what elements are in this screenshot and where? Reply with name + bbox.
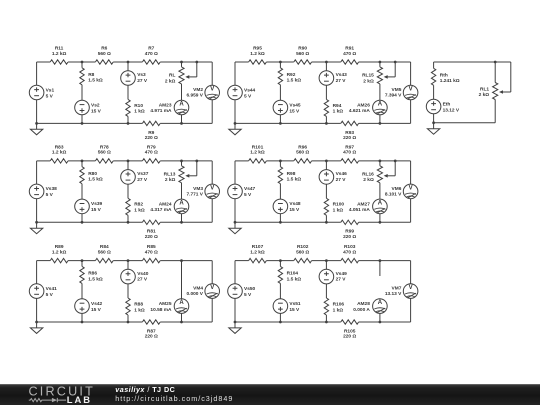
wire: branch 3 upper	[379, 62, 381, 67]
svg-text:RL: RL	[169, 73, 175, 79]
svg-text:Vs49: Vs49	[336, 271, 348, 277]
svg-text:220 Ω: 220 Ω	[343, 234, 356, 240]
voltage source Vs51 15 V	[273, 299, 288, 314]
svg-text:Vs51: Vs51	[289, 301, 301, 307]
resistor R97	[341, 159, 359, 163]
resistor R94	[324, 99, 328, 116]
voltage source Vs39 15 V	[75, 199, 90, 214]
node: bottom junction 2	[127, 221, 130, 224]
wire: wiper	[394, 62, 396, 77]
svg-text:Vs43: Vs43	[336, 72, 348, 78]
svg-text:Vs46: Vs46	[336, 171, 348, 177]
node: top junction 1	[279, 61, 282, 64]
resistor R103	[341, 258, 359, 262]
wire: left rail middle	[433, 85, 435, 99]
svg-text:R96: R96	[298, 145, 307, 151]
svg-text:R6: R6	[101, 46, 107, 52]
wire: right rail	[410, 161, 412, 184]
svg-text:1.5 kΩ: 1.5 kΩ	[88, 276, 103, 282]
svg-text:1.2 kΩ: 1.2 kΩ	[52, 51, 67, 57]
resistor R78	[95, 159, 113, 163]
svg-text:LAB: LAB	[67, 394, 92, 405]
svg-text:R99: R99	[345, 229, 354, 235]
ground	[36, 322, 38, 328]
svg-text:1.5 kΩ: 1.5 kΩ	[287, 276, 302, 282]
resistor R92	[278, 68, 282, 85]
wire: left rail upper	[433, 62, 435, 68]
ammeter AM24 4.317 mA	[174, 199, 189, 214]
svg-text:AM24: AM24	[159, 202, 172, 208]
svg-text:1 kΩ: 1 kΩ	[134, 307, 145, 313]
svg-text:470 Ω: 470 Ω	[145, 150, 158, 156]
svg-text:1.5 kΩ: 1.5 kΩ	[287, 78, 302, 84]
voltage source Vs2 15 V	[75, 100, 90, 115]
svg-text:Vs42: Vs42	[91, 301, 103, 307]
CircuitLab logo: resistor zigzag	[29, 399, 52, 402]
wire: branch 3 lower	[181, 115, 183, 124]
svg-text:2 kΩ: 2 kΩ	[165, 177, 176, 183]
voltage source Vs1 5 V	[29, 85, 44, 100]
resistor R80	[80, 167, 84, 184]
svg-text:Vs39: Vs39	[91, 201, 103, 207]
svg-text:220 Ω: 220 Ω	[145, 334, 158, 340]
ground	[234, 222, 236, 228]
svg-text:2 kΩ: 2 kΩ	[165, 78, 176, 84]
wire: branch 3 lower	[181, 214, 183, 223]
svg-text:A: A	[378, 300, 383, 306]
resistor R105	[341, 320, 359, 324]
svg-text:R103: R103	[344, 244, 356, 250]
svg-text:5 V: 5 V	[46, 292, 54, 298]
svg-text:15 V: 15 V	[91, 108, 102, 114]
voltage source Vs50 5 V	[228, 284, 243, 299]
resistor R85	[142, 258, 160, 262]
svg-text:R7: R7	[148, 46, 154, 52]
svg-text:27 V: 27 V	[137, 277, 148, 283]
wire: branch 1	[279, 62, 281, 68]
resistor R100	[324, 198, 328, 215]
voltage source Vs43 27 V	[319, 71, 334, 86]
svg-text:R92: R92	[287, 72, 296, 78]
voltage source Vs42 15 V	[75, 299, 90, 314]
svg-text:13.12 V: 13.12 V	[443, 107, 460, 113]
voltage source Vs46 27 V	[319, 170, 334, 185]
svg-text:R78: R78	[100, 145, 109, 151]
node: top junction 1	[81, 160, 84, 163]
wire: branch 3 upper	[181, 62, 183, 67]
wire: left rail	[234, 261, 236, 285]
svg-text:A: A	[179, 102, 184, 108]
svg-text:R80: R80	[88, 171, 97, 177]
node: bottom junction 3	[180, 221, 183, 224]
svg-text:VM5: VM5	[392, 87, 402, 93]
svg-text:R100: R100	[333, 202, 345, 208]
svg-text:http://circuitlab.com/c3jd849: http://circuitlab.com/c3jd849	[115, 394, 233, 403]
svg-text:R89: R89	[55, 244, 64, 250]
svg-text:560 Ω: 560 Ω	[296, 249, 309, 255]
voltage source Vs44 5 V	[228, 85, 243, 100]
svg-text:Vs44: Vs44	[244, 87, 256, 93]
wire: branch 2	[325, 161, 327, 170]
node: top junction 1	[81, 259, 84, 262]
svg-text:R95: R95	[253, 46, 262, 52]
svg-text:470 Ω: 470 Ω	[343, 249, 356, 255]
resistor R106	[324, 298, 328, 315]
svg-text:2 kΩ: 2 kΩ	[363, 177, 374, 183]
wire: top rail of circuit (Vs1 group)	[37, 61, 51, 63]
ammeter AM26 4.621 mA	[373, 100, 388, 115]
ground	[36, 222, 38, 228]
resistor R6	[95, 60, 113, 64]
svg-text:AM23: AM23	[159, 103, 172, 109]
svg-text:R82: R82	[134, 202, 143, 208]
svg-text:15 V: 15 V	[289, 207, 300, 213]
wire: branch 1	[279, 161, 281, 167]
wire: branch 3 upper	[379, 161, 381, 166]
resistor R102	[294, 258, 312, 262]
wire: top rail of circuit (Vs38 group)	[37, 160, 51, 162]
svg-text:560 Ω: 560 Ω	[98, 249, 111, 255]
node: bottom junction 2	[127, 321, 130, 324]
svg-text:V: V	[210, 87, 214, 93]
svg-text:Vs41: Vs41	[46, 286, 58, 292]
svg-text:0.000 V: 0.000 V	[186, 291, 203, 297]
svg-text:Rth: Rth	[440, 72, 448, 78]
svg-text:R86: R86	[88, 271, 97, 277]
node: bottom junction 3	[180, 122, 183, 125]
voltage source Vs37 27 V	[121, 170, 136, 185]
voltmeter VM4 0.000 V	[205, 284, 220, 299]
svg-text:R94: R94	[333, 103, 342, 109]
svg-text:RL1: RL1	[480, 86, 489, 92]
node: top junction 3	[180, 61, 183, 64]
node: bottom junction 1	[81, 321, 84, 324]
svg-text:vasiliyx / TJ DC: vasiliyx / TJ DC	[115, 385, 175, 394]
node: bottom junction 3	[379, 221, 382, 224]
ground	[433, 123, 435, 129]
svg-text:R107: R107	[252, 244, 264, 250]
svg-text:1 kΩ: 1 kΩ	[134, 208, 145, 214]
potentiometer RL15	[377, 67, 382, 84]
resistor R96	[294, 159, 312, 163]
svg-text:8.101 V: 8.101 V	[385, 192, 402, 198]
svg-text:R88: R88	[134, 301, 143, 307]
wire: left rail	[234, 161, 236, 185]
svg-text:R84: R84	[100, 244, 109, 250]
node: ground junction	[234, 122, 237, 125]
wire: right rail	[211, 62, 213, 85]
wire: branch 3 (short link)	[181, 261, 183, 299]
node: ground junction	[234, 321, 237, 324]
node: wiper junction	[394, 160, 397, 163]
svg-text:5 V: 5 V	[46, 93, 54, 99]
voltmeter VM7 13.13 V	[403, 284, 418, 299]
node: bottom junction 1	[279, 122, 282, 125]
svg-text:R90: R90	[298, 46, 307, 52]
node: top junction 3	[379, 259, 382, 262]
voltage source Vs3 27 V	[121, 71, 136, 86]
voltage source Vs38 5 V	[29, 184, 44, 199]
resistor R11	[50, 60, 68, 64]
node: top junction 3	[180, 259, 183, 262]
svg-text:VM4: VM4	[193, 286, 203, 292]
svg-text:470 Ω: 470 Ω	[343, 51, 356, 57]
svg-text:1 kΩ: 1 kΩ	[333, 208, 344, 214]
wire: branch 3 upper	[181, 161, 183, 166]
resistor R9	[142, 121, 160, 125]
svg-text:7.771 V: 7.771 V	[186, 192, 203, 198]
resistor R98	[278, 167, 282, 184]
svg-text:RL13: RL13	[164, 172, 176, 178]
svg-text:V: V	[210, 285, 214, 291]
node: bottom junction 1	[279, 321, 282, 324]
svg-text:VM6: VM6	[392, 186, 402, 192]
voltage source Vs47 5 V	[228, 184, 243, 199]
wire: branch 3 lower	[379, 115, 381, 124]
resistor Rth	[431, 68, 435, 85]
svg-text:V: V	[409, 285, 413, 291]
svg-text:1.2 kΩ: 1.2 kΩ	[250, 51, 265, 57]
svg-text:Vs1: Vs1	[46, 87, 55, 93]
svg-text:V: V	[409, 186, 413, 192]
svg-text:5 V: 5 V	[244, 292, 252, 298]
svg-text:27 V: 27 V	[336, 277, 347, 283]
svg-text:AM26: AM26	[357, 103, 370, 109]
node: top junction 1	[279, 259, 282, 262]
wire: left rail	[234, 62, 236, 86]
svg-text:5 V: 5 V	[244, 192, 252, 198]
wire: bottom rail	[37, 321, 143, 323]
svg-text:Vs45: Vs45	[289, 102, 301, 108]
svg-text:4.621 mA: 4.621 mA	[349, 108, 371, 114]
svg-text:VM7: VM7	[392, 286, 402, 292]
wire: left rail	[36, 161, 38, 185]
ground	[234, 322, 236, 328]
svg-text:470 Ω: 470 Ω	[145, 249, 158, 255]
svg-text:R81: R81	[147, 229, 156, 235]
wire: bottom rail	[235, 122, 341, 124]
svg-text:R98: R98	[287, 171, 296, 177]
svg-text:470 Ω: 470 Ω	[145, 51, 158, 57]
svg-text:R79: R79	[147, 145, 156, 151]
potentiometer RL	[179, 67, 184, 84]
svg-text:R87: R87	[147, 328, 156, 334]
node: ground junction	[35, 321, 38, 324]
wire: wiper	[196, 62, 198, 77]
node: top junction 3	[180, 160, 183, 163]
svg-text:R8: R8	[88, 72, 94, 78]
svg-text:0.000 A: 0.000 A	[353, 307, 370, 313]
wire: branch 3 lower	[181, 313, 183, 322]
svg-text:1 kΩ: 1 kΩ	[333, 307, 344, 313]
node: bottom junction 2	[127, 122, 130, 125]
svg-text:VM3: VM3	[193, 186, 203, 192]
svg-text:15 V: 15 V	[91, 307, 102, 313]
wire: wiper	[394, 161, 396, 176]
wire: top rail of circuit (Vs47 group)	[235, 160, 249, 162]
svg-text:A: A	[179, 300, 184, 306]
svg-text:AM28: AM28	[357, 301, 370, 307]
svg-text:V: V	[210, 186, 214, 192]
CircuitLab logo: diode	[52, 398, 57, 402]
svg-text:13.13 V: 13.13 V	[385, 291, 402, 297]
svg-text:1 kΩ: 1 kΩ	[333, 109, 344, 115]
resistor R95	[249, 60, 267, 64]
resistor R90	[294, 60, 312, 64]
node: ground junction	[432, 121, 435, 124]
svg-text:1.5 kΩ: 1.5 kΩ	[287, 177, 302, 183]
ammeter AM28 0.000 A	[373, 299, 388, 314]
ammeter AM23 4.971 mA	[174, 100, 189, 115]
svg-text:Vs3: Vs3	[137, 72, 146, 78]
svg-text:10.58 mA: 10.58 mA	[150, 307, 172, 313]
svg-text:R97: R97	[345, 145, 354, 151]
svg-text:R11: R11	[55, 46, 64, 52]
node: top junction 3	[379, 61, 382, 64]
svg-text:4.971 mA: 4.971 mA	[150, 108, 172, 114]
ground	[36, 123, 38, 129]
svg-text:220 Ω: 220 Ω	[145, 234, 158, 240]
wire: branch 2	[325, 62, 327, 71]
node: top junction 2	[325, 160, 328, 163]
wire: top rail of circuit (Vs41 group)	[37, 260, 51, 262]
resistor R79	[142, 159, 160, 163]
svg-text:560 Ω: 560 Ω	[98, 51, 111, 57]
voltmeter VM3 7.771 V	[205, 184, 220, 199]
svg-text:R102: R102	[297, 244, 309, 250]
resistor R10	[126, 99, 130, 116]
svg-text:6.959 V: 6.959 V	[186, 93, 203, 99]
ammeter AM27 4.051 mA	[373, 199, 388, 214]
node: bottom junction 1	[81, 122, 84, 125]
svg-text:1.5 kΩ: 1.5 kΩ	[88, 78, 103, 84]
svg-text:5 V: 5 V	[46, 192, 54, 198]
svg-text:RL16: RL16	[362, 172, 374, 178]
resistor R8	[80, 68, 84, 85]
wire: branch 3 lower	[379, 313, 381, 322]
node: RL1 top junction	[494, 61, 497, 64]
wire: RL1 wiper	[510, 62, 512, 92]
svg-text:15 V: 15 V	[289, 108, 300, 114]
node: wiper junction	[195, 61, 198, 64]
svg-text:1.241 kΩ: 1.241 kΩ	[440, 78, 460, 84]
resistor R104	[278, 266, 282, 283]
svg-text:R104: R104	[287, 271, 299, 277]
svg-text:27 V: 27 V	[336, 78, 347, 84]
resistor R99	[341, 220, 359, 224]
node: wiper junction	[394, 61, 397, 64]
wire: branch 2	[325, 261, 327, 270]
svg-text:Eth: Eth	[443, 101, 451, 107]
svg-text:Vs50: Vs50	[244, 286, 256, 292]
wire: branch 1	[81, 62, 83, 68]
svg-text:R93: R93	[345, 130, 354, 136]
svg-text:Vs37: Vs37	[137, 171, 149, 177]
voltage source Vs41 5 V	[29, 284, 44, 299]
svg-text:220 Ω: 220 Ω	[343, 334, 356, 340]
svg-text:R101: R101	[252, 145, 264, 151]
node: wiper junction	[195, 160, 198, 163]
svg-text:2 kΩ: 2 kΩ	[479, 92, 490, 98]
wire: wiper	[196, 161, 198, 176]
voltage source Vs40 27 V	[121, 269, 136, 284]
svg-text:1.2 kΩ: 1.2 kΩ	[52, 150, 67, 156]
node: top junction 2	[127, 61, 130, 64]
svg-text:1 kΩ: 1 kΩ	[134, 109, 145, 115]
wire: top rail (Thevenin circuit)	[434, 61, 511, 63]
svg-text:5 V: 5 V	[244, 93, 252, 99]
potentiometer RL1	[494, 62, 496, 83]
svg-text:27 V: 27 V	[137, 177, 148, 183]
wire: left rail	[36, 62, 38, 86]
svg-text:2 kΩ: 2 kΩ	[363, 78, 374, 84]
voltmeter VM5 7.394 V	[403, 85, 418, 100]
svg-text:Vs40: Vs40	[137, 271, 149, 277]
svg-text:27 V: 27 V	[336, 177, 347, 183]
potentiometer RL13	[179, 166, 184, 183]
wire: right rail	[211, 161, 213, 184]
node: top junction 3	[379, 160, 382, 163]
resistor R82	[126, 198, 130, 215]
voltage source Eth 13.12 V	[426, 99, 441, 114]
svg-text:1.2 kΩ: 1.2 kΩ	[250, 249, 265, 255]
svg-text:R106: R106	[333, 301, 345, 307]
svg-text:470 Ω: 470 Ω	[343, 150, 356, 156]
svg-text:R91: R91	[345, 46, 354, 52]
svg-text:15 V: 15 V	[91, 207, 102, 213]
node: top junction 2	[127, 259, 130, 262]
resistor R93	[341, 121, 359, 125]
wire: left rail lower	[433, 114, 435, 123]
resistor R107	[249, 258, 267, 262]
wire: branch 1	[279, 261, 281, 267]
svg-text:V: V	[409, 87, 413, 93]
voltage source Vs48 15 V	[273, 199, 288, 214]
wire: branch 1	[81, 261, 83, 267]
wire: top rail of circuit (Vs44 group)	[235, 61, 249, 63]
node: bottom junction 2	[325, 321, 328, 324]
svg-text:R83: R83	[55, 145, 64, 151]
wire: bottom rail	[235, 221, 341, 223]
wire: branch 1	[81, 161, 83, 167]
svg-text:4.051 mA: 4.051 mA	[349, 207, 371, 213]
svg-text:7.394 V: 7.394 V	[385, 93, 402, 99]
svg-text:Vs38: Vs38	[46, 186, 58, 192]
svg-text:1.2 kΩ: 1.2 kΩ	[52, 249, 67, 255]
node: ground junction	[35, 122, 38, 125]
node: bottom junction 3	[379, 122, 382, 125]
node: bottom junction 1	[279, 221, 282, 224]
resistor R86	[80, 266, 84, 283]
resistor R84	[95, 258, 113, 262]
wire: bottom rail	[37, 122, 143, 124]
resistor R88	[126, 298, 130, 315]
wire: bottom rail	[434, 122, 496, 124]
voltage source Vs45 15 V	[273, 100, 288, 115]
node: ground junction	[234, 221, 237, 224]
resistor R87	[142, 320, 160, 324]
svg-text:220 Ω: 220 Ω	[343, 135, 356, 141]
svg-text:A: A	[378, 102, 383, 108]
wire: top rail of circuit (Vs50 group)	[235, 260, 249, 262]
svg-text:AM27: AM27	[357, 202, 370, 208]
wire: left rail	[36, 261, 38, 285]
node: top junction 2	[127, 160, 130, 163]
node: bottom junction 3	[379, 321, 382, 324]
node: bottom junction 2	[325, 122, 328, 125]
svg-text:220 Ω: 220 Ω	[145, 135, 158, 141]
voltmeter VM2 6.959 V	[205, 85, 220, 100]
